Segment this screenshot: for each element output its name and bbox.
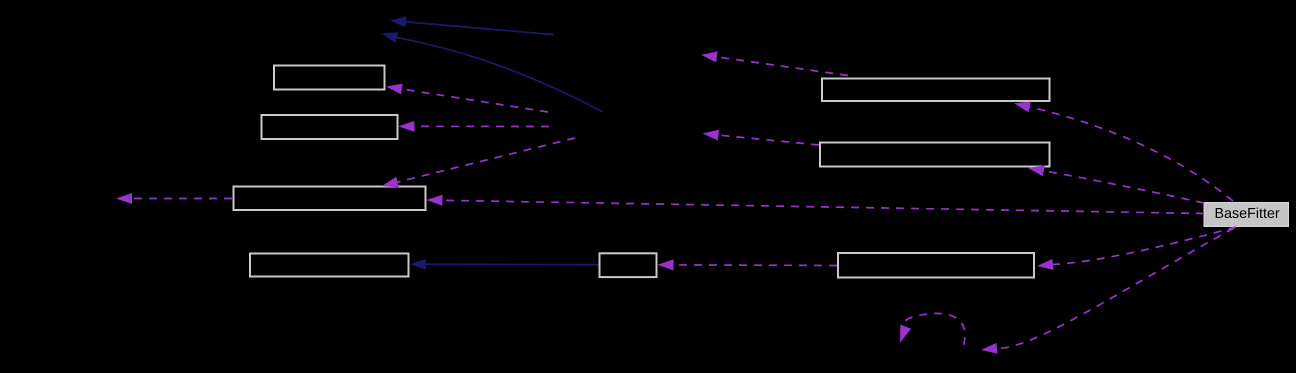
edge BaseFitter to box3 (long horizontal dashed) (443, 200, 1205, 213)
navy arrowhead into box4 (410, 259, 426, 270)
arrowhead into box5 (658, 259, 674, 270)
edge box8 to box5 (dashed) (674, 264, 838, 267)
node box1 (empty class box, top-left) (274, 66, 385, 90)
arrowhead node B (703, 130, 720, 141)
node box5 (small empty class box) (600, 253, 657, 277)
navy inheritance curve 2 (397, 38, 603, 112)
navy line box5 to box4 (426, 263, 599, 266)
edge fan to box1 (dashed) (402, 89, 548, 112)
node box6 (empty class box, top-right) (822, 79, 1050, 102)
arrowhead into box7 (1028, 165, 1045, 176)
node box3 (empty class box) (234, 187, 426, 211)
self-loop on node C (dashed arc) (904, 313, 965, 345)
arrowhead into box3 right (427, 195, 443, 206)
edge box6 to node A (dashed) (717, 57, 848, 76)
arrowhead of self-loop (900, 325, 911, 343)
node box4 (empty class box) (250, 254, 409, 277)
navy arrowhead 1 (390, 16, 406, 27)
edge BaseFitter to node C (dashed curve, bottom) (997, 228, 1234, 348)
edge BaseFitter to box7 (dashed curve) (1044, 171, 1204, 203)
node BaseFitter (current node, gray filled) (1204, 203, 1289, 227)
arrowhead into box6 (1014, 102, 1031, 113)
edge box3 to far-left (dashed) (132, 198, 232, 200)
edge BaseFitter to box8 (dashed curve) (1053, 227, 1236, 265)
arrowhead into box1 (386, 84, 403, 95)
arrowhead far-left (116, 193, 132, 204)
arrowhead into box2 (399, 121, 415, 132)
node box8 (empty class box, bottom) (838, 253, 1034, 278)
edge fan to box2 (dashed) (415, 125, 550, 127)
edge box7 to node B (dashed) (718, 135, 819, 145)
arrowhead into box8 (1037, 259, 1054, 270)
navy inheritance line 1 (top, straight) (406, 22, 554, 35)
edge BaseFitter to box6 (dashed curve) (1030, 107, 1233, 201)
edge fan to box3 top (dashed diagonal) (398, 138, 576, 182)
node box2 (empty class box) (262, 115, 398, 139)
arrowhead into node C (981, 343, 998, 354)
navy arrowhead 2 (382, 32, 399, 43)
arrowhead into box3 top (382, 177, 399, 188)
arrowhead node A (701, 52, 718, 63)
node box7 (empty class box) (820, 143, 1050, 167)
